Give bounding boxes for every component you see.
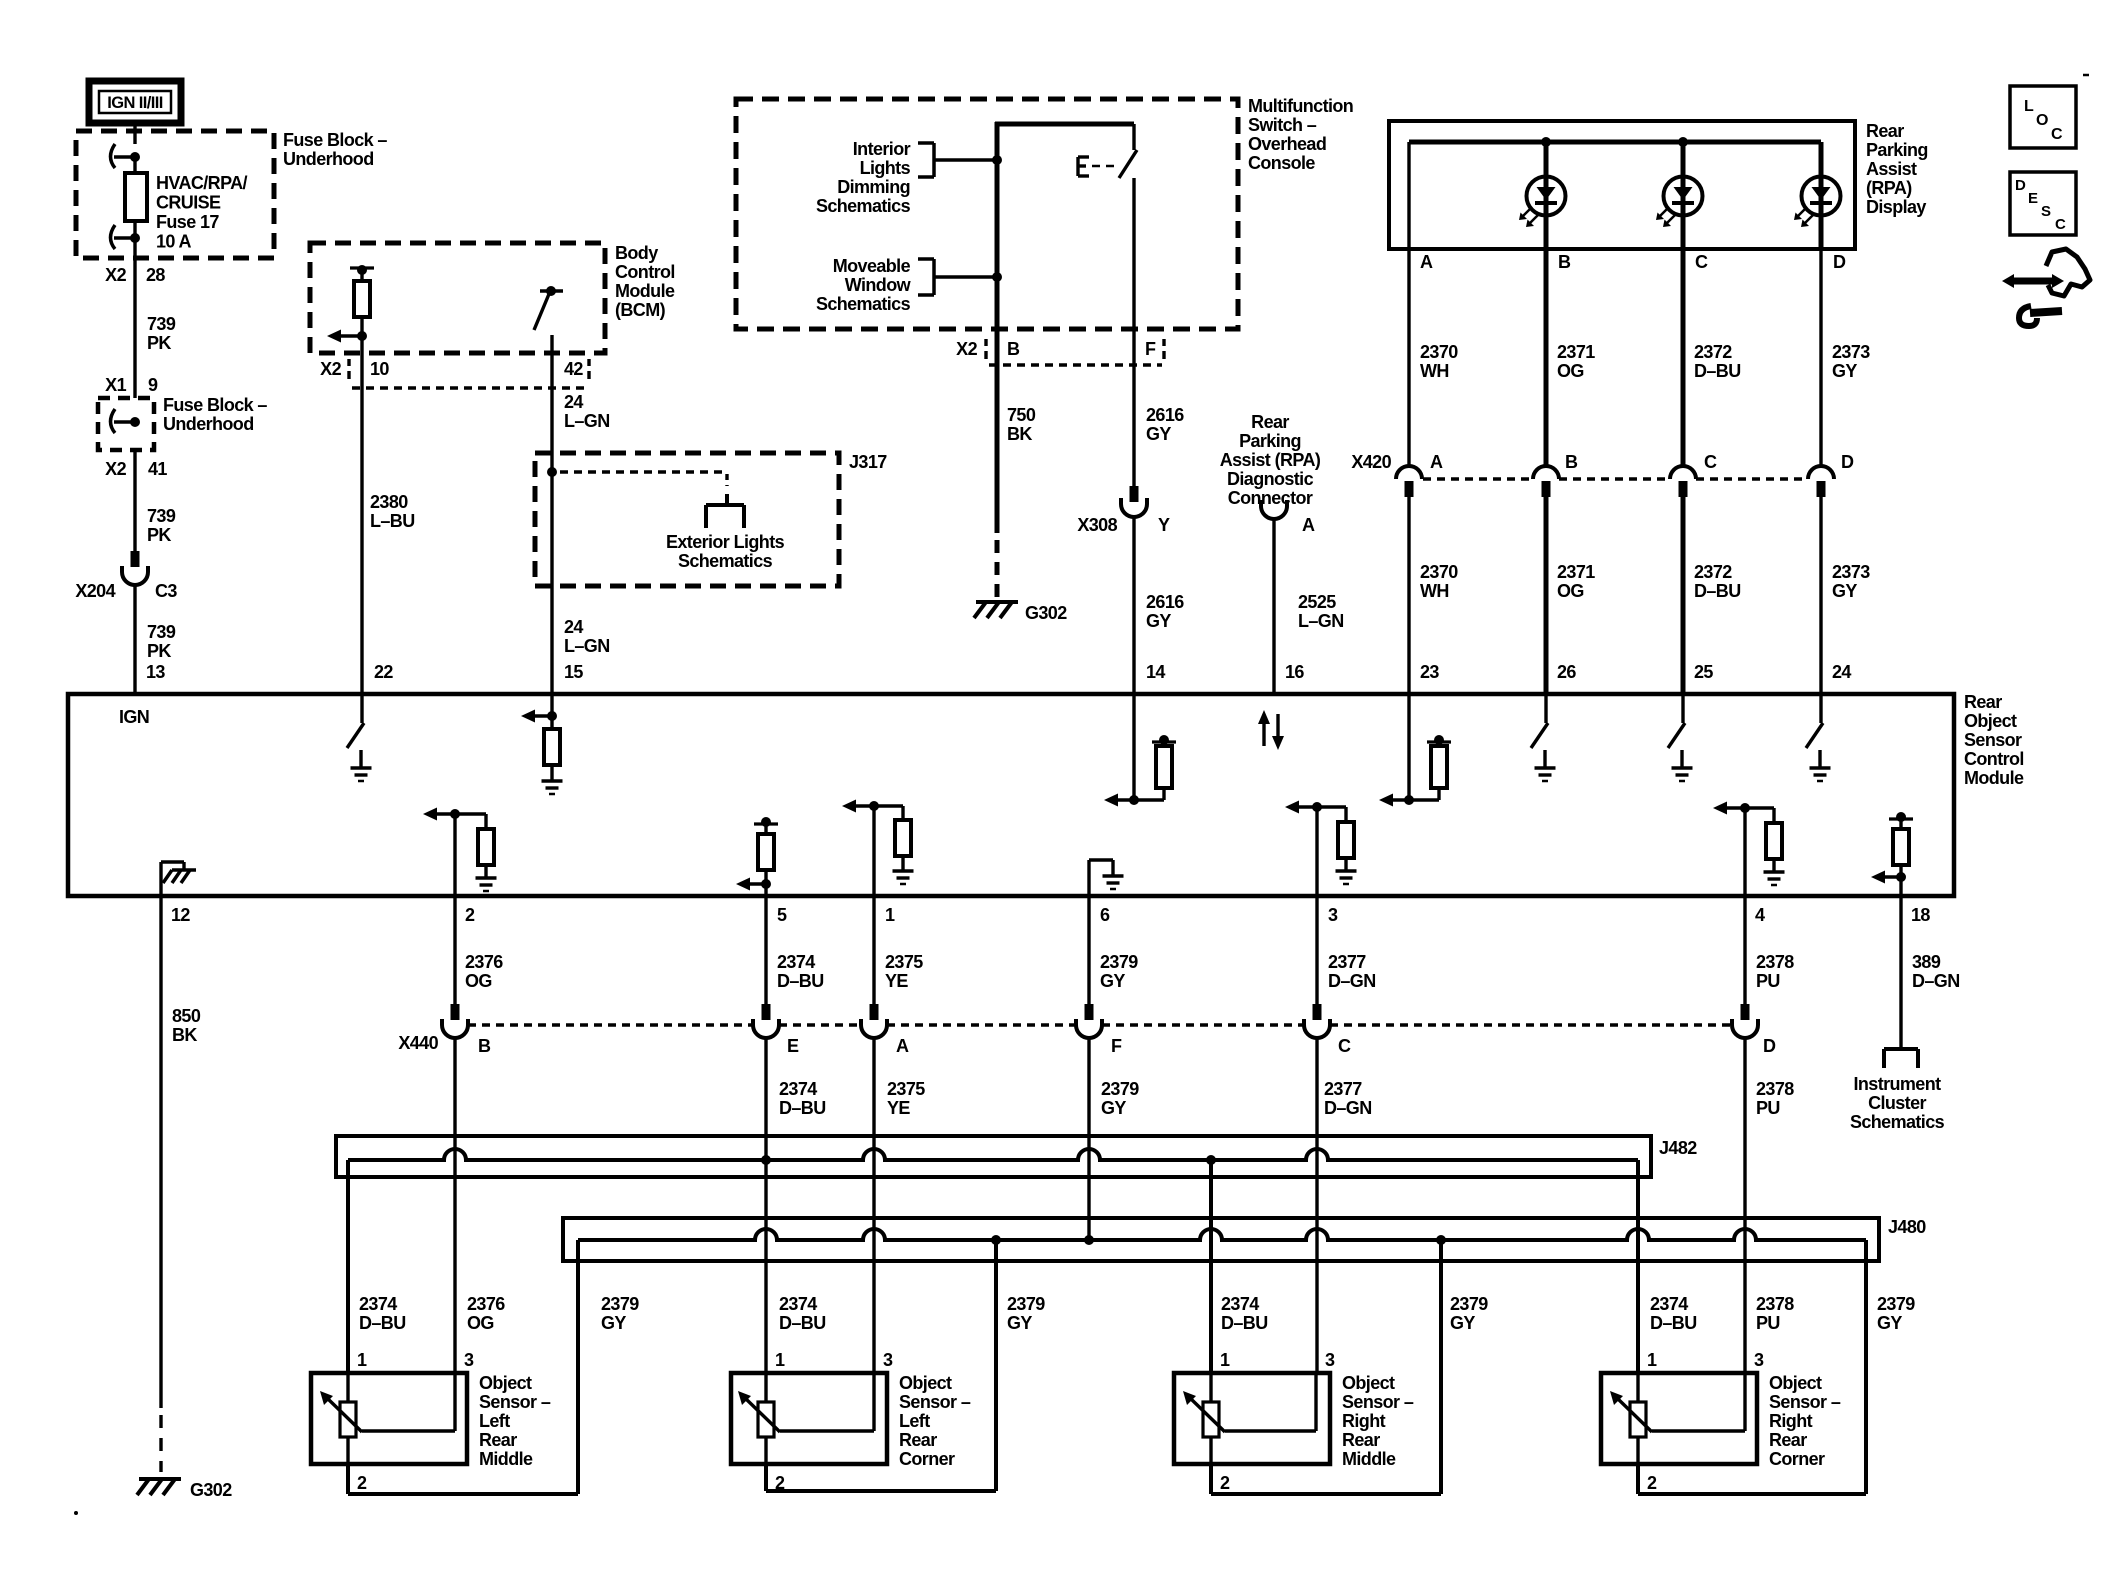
body control module BCM dashed box xyxy=(310,243,605,353)
wire label 2374 D-BU (s2) xyxy=(779,1294,826,1333)
wire 2616 GY to module pin 14 xyxy=(1132,516,1135,694)
svg-text:42: 42 xyxy=(564,359,583,379)
RPA diagnostic connector pin A xyxy=(1261,500,1315,535)
wire label 2370 WH (2) xyxy=(1420,562,1458,601)
svg-text:A: A xyxy=(1420,252,1433,272)
svg-text:Right: Right xyxy=(1769,1411,1813,1431)
wire 2372 D-BU display C to X420 xyxy=(1681,249,1686,466)
svg-text:B: B xyxy=(1007,339,1020,359)
svg-text:Schematics: Schematics xyxy=(816,294,911,314)
svg-text:Body: Body xyxy=(615,243,658,263)
wire 2379 GY J480 right drop to sensor4 pin 2 loop xyxy=(1638,1240,1866,1494)
splice J480 inner wire with jumps xyxy=(578,1229,1866,1240)
svg-text:10: 10 xyxy=(370,359,389,379)
svg-text:Diagnostic: Diagnostic xyxy=(1227,469,1314,489)
DESC icon box xyxy=(2010,172,2076,235)
splice J482 inner wire with jumps xyxy=(348,1149,1638,1160)
wire sensor1 pin2 stub xyxy=(346,1464,350,1494)
fuse clip lower xyxy=(111,225,141,249)
svg-text:Parking: Parking xyxy=(1239,431,1301,451)
svg-text:Fuse Block –: Fuse Block – xyxy=(283,130,387,150)
svg-text:3: 3 xyxy=(464,1350,474,1370)
svg-text:Left: Left xyxy=(479,1411,510,1431)
svg-text:HVAC/RPA/: HVAC/RPA/ xyxy=(156,173,248,193)
fuse clip in block 2 xyxy=(111,409,141,433)
multifunction switch title xyxy=(1248,96,1353,173)
wire bracket2 to bus with junction xyxy=(934,272,1002,282)
wire label 739 PK (3) xyxy=(147,622,176,661)
svg-text:1: 1 xyxy=(775,1350,785,1370)
wire label 2374 D-BU (s4) xyxy=(1650,1294,1697,1333)
display LED D xyxy=(1794,142,1841,249)
svg-text:L–BU: L–BU xyxy=(370,511,415,531)
svg-text:C: C xyxy=(2055,216,2066,233)
wire 2375 YE X440 A to sensor2 pin 3 xyxy=(872,1037,875,1373)
wire label 2371 OG (1) xyxy=(1557,342,1595,381)
connector X308 pin Y xyxy=(1121,486,1147,517)
svg-text:OG: OG xyxy=(1557,581,1584,601)
splice pack J317 dashed box xyxy=(535,453,839,586)
svg-text:2: 2 xyxy=(775,1473,785,1493)
object sensor 3 right rear middle pin labels xyxy=(1220,1350,1335,1493)
svg-text:10 A: 10 A xyxy=(156,232,192,252)
svg-text:Sensor –: Sensor – xyxy=(479,1392,551,1412)
console connector X2 labels xyxy=(956,339,1164,359)
rear parking assist RPA display box xyxy=(1389,121,1855,249)
svg-text:2: 2 xyxy=(1220,1473,1230,1493)
svg-text:PK: PK xyxy=(147,525,171,545)
wire 24 L-GN BCM pin 42 down xyxy=(550,335,553,694)
module pin 24 switch to ground xyxy=(1806,694,1831,781)
svg-text:F: F xyxy=(1145,339,1156,359)
wire 2380 L-BU BCM pin 10 to module pin 22 xyxy=(360,336,363,694)
object sensor 3 right rear middle box xyxy=(1174,1373,1330,1464)
connector X440 pin D xyxy=(1732,1004,1776,1056)
svg-text:Module: Module xyxy=(615,281,675,301)
ground G302 (console) xyxy=(974,602,1067,623)
svg-text:J480: J480 xyxy=(1888,1217,1926,1237)
svg-text:D–BU: D–BU xyxy=(777,971,824,991)
svg-text:Parking: Parking xyxy=(1866,140,1928,160)
wire label 2379 GY (s4 loop) xyxy=(1877,1294,1915,1333)
connector X440 label xyxy=(398,1033,438,1053)
module pin 5 internal: inline resistor with terminal xyxy=(736,694,778,896)
module pin 23 xyxy=(1420,662,1439,682)
display bus junction C xyxy=(1678,137,1688,147)
svg-text:WH: WH xyxy=(1420,361,1449,381)
svg-text:YE: YE xyxy=(885,971,908,991)
svg-text:25: 25 xyxy=(1694,662,1713,682)
svg-text:Fuse 17: Fuse 17 xyxy=(156,212,219,232)
svg-text:2376: 2376 xyxy=(467,1294,505,1314)
wire label 2525 L-GN xyxy=(1298,592,1344,631)
svg-text:PK: PK xyxy=(147,641,171,661)
BCM internal switch xyxy=(534,286,563,330)
svg-text:4: 4 xyxy=(1755,905,1765,925)
wire label 2377 D-GN (1) xyxy=(1328,952,1376,991)
wire 2379 GY J480 left drop to sensor1 pin 2 loop xyxy=(348,1240,578,1494)
module pin 25 xyxy=(1694,662,1713,682)
svg-text:D–BU: D–BU xyxy=(1694,581,1741,601)
thick bus wire in console xyxy=(995,122,1134,533)
svg-text:2374: 2374 xyxy=(779,1294,817,1314)
display bus junction B xyxy=(1541,137,1551,147)
svg-text:6: 6 xyxy=(1100,905,1110,925)
module pin 3 internal: junction arrow resistor ground xyxy=(1285,801,1357,897)
svg-text:CRUISE: CRUISE xyxy=(156,193,221,213)
svg-text:Multifunction: Multifunction xyxy=(1248,96,1353,116)
svg-text:1: 1 xyxy=(357,1350,367,1370)
wire 2377 D-GN X440 C to sensor3 pin 3 xyxy=(1315,1037,1318,1373)
svg-text:OG: OG xyxy=(465,971,492,991)
connector X420 dashed line xyxy=(1423,477,1808,480)
svg-text:Sensor: Sensor xyxy=(1964,730,2022,750)
svg-text:Object: Object xyxy=(1964,711,2017,731)
svg-text:2370: 2370 xyxy=(1420,342,1458,362)
svg-text:D–GN: D–GN xyxy=(1324,1098,1372,1118)
svg-text:C: C xyxy=(1704,452,1717,472)
module pin 14 xyxy=(1146,662,1165,682)
connector X308 labels xyxy=(1077,515,1170,535)
module IGN label xyxy=(119,707,149,727)
interior lights bracket xyxy=(918,143,934,177)
svg-text:23: 23 xyxy=(1420,662,1439,682)
module pin 13 xyxy=(146,662,165,682)
wire label 2379 GY (s1 loop) xyxy=(601,1294,639,1333)
rear parking assist diagnostic connector title xyxy=(1220,412,1321,508)
wire label 2374 D-BU (2) xyxy=(779,1079,826,1118)
module pin 26 switch to ground xyxy=(1531,694,1556,781)
svg-text:L: L xyxy=(2024,98,2034,115)
svg-text:GY: GY xyxy=(1100,971,1125,991)
svg-text:3: 3 xyxy=(1328,905,1338,925)
svg-text:Object: Object xyxy=(1342,1373,1395,1393)
svg-text:D–BU: D–BU xyxy=(1650,1313,1697,1333)
object sensor 1 left rear middle box xyxy=(311,1373,467,1464)
svg-text:PK: PK xyxy=(147,333,171,353)
svg-text:D: D xyxy=(1833,252,1846,272)
LOC icon box xyxy=(2010,86,2076,148)
svg-text:Object: Object xyxy=(1769,1373,1822,1393)
connector X440 pin B xyxy=(442,1004,491,1056)
wire bracket to bus with junction xyxy=(934,155,1002,165)
svg-text:Left: Left xyxy=(899,1411,930,1431)
wire 2378 PU module pin 4 to X440 D xyxy=(1743,896,1746,1004)
wire 2374 D-BU module pin 5 to X440 E xyxy=(764,896,767,1004)
svg-text:Rear: Rear xyxy=(1342,1430,1380,1450)
module title xyxy=(1964,692,2024,788)
wire 2370 WH display A to X420 xyxy=(1407,249,1410,466)
svg-text:GY: GY xyxy=(1832,361,1857,381)
BCM connector X2 labels xyxy=(320,359,589,379)
svg-text:X2: X2 xyxy=(956,339,977,359)
svg-text:Sensor –: Sensor – xyxy=(1342,1392,1414,1412)
svg-text:J482: J482 xyxy=(1659,1138,1697,1158)
svg-text:D–GN: D–GN xyxy=(1328,971,1376,991)
connector X204 labels xyxy=(75,581,177,601)
wire 739 PK segment X2-28 xyxy=(133,238,136,398)
svg-text:Corner: Corner xyxy=(899,1449,955,1469)
svg-text:2373: 2373 xyxy=(1832,342,1870,362)
wire 2375 YE module pin 1 to X440 A xyxy=(872,896,875,1004)
splice J482 junction at sensor3 drop xyxy=(1206,1155,1216,1165)
svg-text:2378: 2378 xyxy=(1756,952,1794,972)
wire 850 BK from module pin 12 xyxy=(159,896,162,1408)
svg-text:Switch –: Switch – xyxy=(1248,115,1317,135)
svg-text:(RPA): (RPA) xyxy=(1866,178,1912,198)
instrument cluster text xyxy=(1850,1074,1945,1132)
wire 2376 OG module pin 2 to X440 B xyxy=(453,896,456,1004)
rear object sensor control module box xyxy=(68,694,1954,896)
connector X2 pin 28 labels xyxy=(105,265,165,285)
stray speck xyxy=(74,1511,78,1515)
wire 2616 GY from switch down xyxy=(1132,178,1135,486)
wire label 24 L-GN (2) xyxy=(564,617,610,656)
pointer tool icon xyxy=(2002,249,2090,326)
svg-text:Schematics: Schematics xyxy=(816,196,911,216)
wire label 850 BK xyxy=(172,1006,201,1045)
svg-text:Schematics: Schematics xyxy=(678,551,773,571)
wire 739 PK segment X2-41 xyxy=(133,450,136,551)
svg-text:X2: X2 xyxy=(105,265,126,285)
svg-text:L–GN: L–GN xyxy=(564,636,610,656)
svg-text:16: 16 xyxy=(1285,662,1304,682)
svg-text:2373: 2373 xyxy=(1832,562,1870,582)
splice J480 label xyxy=(1888,1217,1926,1237)
svg-text:Exterior Lights: Exterior Lights xyxy=(666,532,785,552)
splice J482 label xyxy=(1659,1138,1697,1158)
wire 2525 L-GN to module pin 16 xyxy=(1272,518,1275,694)
wire label 2371 OG (2) xyxy=(1557,562,1595,601)
svg-text:24: 24 xyxy=(564,392,583,412)
svg-text:BK: BK xyxy=(172,1025,197,1045)
svg-text:15: 15 xyxy=(564,662,583,682)
svg-text:2380: 2380 xyxy=(370,492,408,512)
object sensor 4 right rear corner pin labels xyxy=(1647,1350,1764,1493)
svg-text:2375: 2375 xyxy=(887,1079,925,1099)
wire label 2372 D-BU (1) xyxy=(1694,342,1741,381)
svg-text:X308: X308 xyxy=(1077,515,1117,535)
console switch contact and blade xyxy=(1119,124,1137,178)
connector X1 pin 9 labels xyxy=(105,375,158,395)
wire label 2370 WH (1) xyxy=(1420,342,1458,381)
console switch actuator E bracket xyxy=(1078,157,1114,176)
wire into fuse F17 xyxy=(133,157,136,173)
moveable window bracket xyxy=(918,259,934,295)
wire label 2378 PU (2) xyxy=(1756,1079,1794,1118)
svg-text:22: 22 xyxy=(374,662,393,682)
svg-text:Rear: Rear xyxy=(1251,412,1289,432)
splice J480 junction sensor2 loop xyxy=(991,1235,1001,1245)
svg-text:739: 739 xyxy=(147,314,176,334)
svg-text:D–GN: D–GN xyxy=(1912,971,1960,991)
display pin letters xyxy=(1420,252,1846,272)
svg-text:IGN: IGN xyxy=(119,707,149,727)
svg-text:GY: GY xyxy=(1101,1098,1126,1118)
wire from IGN II/III to fuse block xyxy=(133,123,136,144)
J317 exterior lights text xyxy=(666,532,785,571)
wire label 2376 OG (1) xyxy=(465,952,503,991)
svg-text:Sensor –: Sensor – xyxy=(1769,1392,1841,1412)
power feed label IGN II/III xyxy=(89,81,181,123)
svg-text:2: 2 xyxy=(1647,1473,1657,1493)
svg-text:2372: 2372 xyxy=(1694,562,1732,582)
wire label 24 L-GN (1) xyxy=(564,392,610,431)
svg-text:Lights: Lights xyxy=(860,158,911,178)
J317 inner dashed connector line xyxy=(560,472,727,486)
svg-text:Rear: Rear xyxy=(1964,692,2002,712)
svg-text:2374: 2374 xyxy=(1650,1294,1688,1314)
svg-text:Window: Window xyxy=(845,275,912,295)
svg-text:2616: 2616 xyxy=(1146,405,1184,425)
wire label 2374 D-BU (s3) xyxy=(1221,1294,1268,1333)
module pin 4 internal: junction arrow resistor ground xyxy=(1713,802,1785,897)
object sensor 2 left rear corner internal variable resistor xyxy=(738,1373,874,1464)
svg-text:2379: 2379 xyxy=(1877,1294,1915,1314)
svg-text:Interior: Interior xyxy=(853,139,911,159)
svg-text:41: 41 xyxy=(148,459,167,479)
stray mark xyxy=(2083,74,2089,77)
object sensor 1 left rear middle internal variable resistor xyxy=(320,1373,455,1464)
svg-text:Connector: Connector xyxy=(1228,488,1313,508)
svg-text:GY: GY xyxy=(1450,1313,1475,1333)
svg-text:18: 18 xyxy=(1911,905,1930,925)
svg-text:PU: PU xyxy=(1756,1313,1780,1333)
svg-text:Dimming: Dimming xyxy=(837,177,910,197)
wire 389 D-GN module pin 18 down xyxy=(1899,896,1902,1049)
svg-text:GY: GY xyxy=(601,1313,626,1333)
svg-text:B: B xyxy=(1565,452,1578,472)
svg-text:12: 12 xyxy=(171,905,190,925)
svg-text:S: S xyxy=(2041,203,2051,220)
svg-text:PU: PU xyxy=(1756,971,1780,991)
splice J480 junction sensor3 loop xyxy=(1436,1235,1446,1245)
svg-text:Cluster: Cluster xyxy=(1868,1093,1926,1113)
wire label 2377 D-GN (2) xyxy=(1324,1079,1372,1118)
svg-text:2371: 2371 xyxy=(1557,342,1595,362)
wire label 2379 GY (s2 loop) xyxy=(1007,1294,1045,1333)
wire sensor2 pin2 stub xyxy=(764,1464,768,1491)
wire label 2379 GY (2) xyxy=(1101,1079,1139,1118)
svg-text:D–BU: D–BU xyxy=(1221,1313,1268,1333)
splice J482 junction at 2374 D-BU xyxy=(761,1155,771,1165)
svg-text:E: E xyxy=(2028,190,2038,207)
module pin 24 xyxy=(1832,662,1851,682)
svg-text:2616: 2616 xyxy=(1146,592,1184,612)
svg-text:2374: 2374 xyxy=(779,1079,817,1099)
svg-text:Object: Object xyxy=(899,1373,952,1393)
svg-text:X1: X1 xyxy=(105,375,126,395)
fuse block 2 dashed box xyxy=(98,398,154,450)
svg-text:GY: GY xyxy=(1146,424,1171,444)
wire 850 BK dashed segment xyxy=(159,1415,162,1472)
svg-text:Overhead: Overhead xyxy=(1248,134,1326,154)
svg-text:G302: G302 xyxy=(190,1480,232,1500)
svg-text:2376: 2376 xyxy=(465,952,503,972)
object sensor 2 left rear corner title xyxy=(899,1373,971,1469)
object sensor 2 left rear corner box xyxy=(731,1373,887,1464)
module pin 12 internal chassis ground xyxy=(161,862,196,896)
svg-text:Display: Display xyxy=(1866,197,1926,217)
wire label 2379 GY (s3 loop) xyxy=(1450,1294,1488,1333)
svg-text:G302: G302 xyxy=(1025,603,1067,623)
module pin 15 internal: arrow junction resistor ground xyxy=(521,694,563,794)
svg-text:Assist: Assist xyxy=(1866,159,1917,179)
wire label 2375 YE (1) xyxy=(885,952,923,991)
svg-text:Assist (RPA): Assist (RPA) xyxy=(1220,450,1321,470)
fuse block - underhood dashed box xyxy=(76,131,274,258)
J317 junction dot on wire 24 L-GN xyxy=(547,467,557,477)
ground G302 (main) xyxy=(137,1479,232,1500)
svg-text:Middle: Middle xyxy=(1342,1449,1396,1469)
svg-text:Instrument: Instrument xyxy=(1853,1074,1941,1094)
svg-text:Y: Y xyxy=(1158,515,1170,535)
svg-text:2525: 2525 xyxy=(1298,592,1336,612)
svg-text:850: 850 xyxy=(172,1006,201,1026)
connector X440 pin C xyxy=(1304,1004,1351,1056)
wire label 2372 D-BU (2) xyxy=(1694,562,1741,601)
svg-text:Middle: Middle xyxy=(479,1449,533,1469)
wire 2374 D-BU X440 E to sensor2 pin 1 xyxy=(764,1037,767,1373)
module pin 2 internal: junction arrow resistor ground xyxy=(423,808,497,897)
svg-text:IGN II/III: IGN II/III xyxy=(107,94,162,112)
object sensor 4 right rear corner box xyxy=(1601,1373,1757,1464)
BCM title xyxy=(615,243,675,320)
connector X420 pin A xyxy=(1396,452,1443,497)
svg-text:L–GN: L–GN xyxy=(1298,611,1344,631)
svg-text:BK: BK xyxy=(1007,424,1032,444)
display LED B xyxy=(1519,142,1566,249)
svg-text:C: C xyxy=(2051,126,2063,143)
instrument cluster off-page bracket xyxy=(1884,1049,1918,1068)
fuse F17 HVAC/RPA/CRUISE 10A xyxy=(125,173,147,238)
svg-text:Right: Right xyxy=(1342,1411,1386,1431)
wire 2371 OG to module pin 26 xyxy=(1544,497,1549,694)
splice J480 junction wire 2379 GY xyxy=(1084,1235,1094,1245)
svg-text:2379: 2379 xyxy=(1007,1294,1045,1314)
connector X204 C3 xyxy=(122,551,148,585)
J317 off-page bracket to exterior lights xyxy=(706,494,744,528)
svg-text:739: 739 xyxy=(147,506,176,526)
svg-text:9: 9 xyxy=(148,375,158,395)
object sensor 2 left rear corner pin labels xyxy=(775,1350,893,1493)
connector X420 label xyxy=(1351,452,1391,472)
BCM internal resistor with terminal xyxy=(350,265,374,336)
svg-text:Rear: Rear xyxy=(479,1430,517,1450)
object sensor 3 right rear middle internal variable resistor xyxy=(1183,1373,1316,1464)
svg-text:2372: 2372 xyxy=(1694,342,1732,362)
svg-text:(BCM): (BCM) xyxy=(615,300,666,320)
wire 750 BK dashed to ground xyxy=(995,540,1000,598)
svg-text:2: 2 xyxy=(357,1473,367,1493)
wire 2378 PU X440 D to sensor4 pin 3 xyxy=(1743,1037,1746,1373)
fuse F17 value labels xyxy=(156,173,248,252)
display title xyxy=(1866,121,1928,217)
svg-text:L–GN: L–GN xyxy=(564,411,610,431)
wire sensor4 pin2 stub xyxy=(1636,1464,1640,1494)
svg-text:3: 3 xyxy=(1325,1350,1335,1370)
svg-text:D–BU: D–BU xyxy=(359,1313,406,1333)
svg-text:2374: 2374 xyxy=(1221,1294,1259,1314)
splice pack J480 box xyxy=(563,1218,1879,1261)
svg-text:GY: GY xyxy=(1007,1313,1032,1333)
module pin 23 internal: resistor with terminal and arrow xyxy=(1379,694,1451,807)
wire label 2380 L-BU xyxy=(370,492,415,531)
svg-text:D: D xyxy=(1763,1036,1776,1056)
svg-text:2379: 2379 xyxy=(1450,1294,1488,1314)
display LED C xyxy=(1656,142,1703,249)
svg-text:Rear: Rear xyxy=(899,1430,937,1450)
